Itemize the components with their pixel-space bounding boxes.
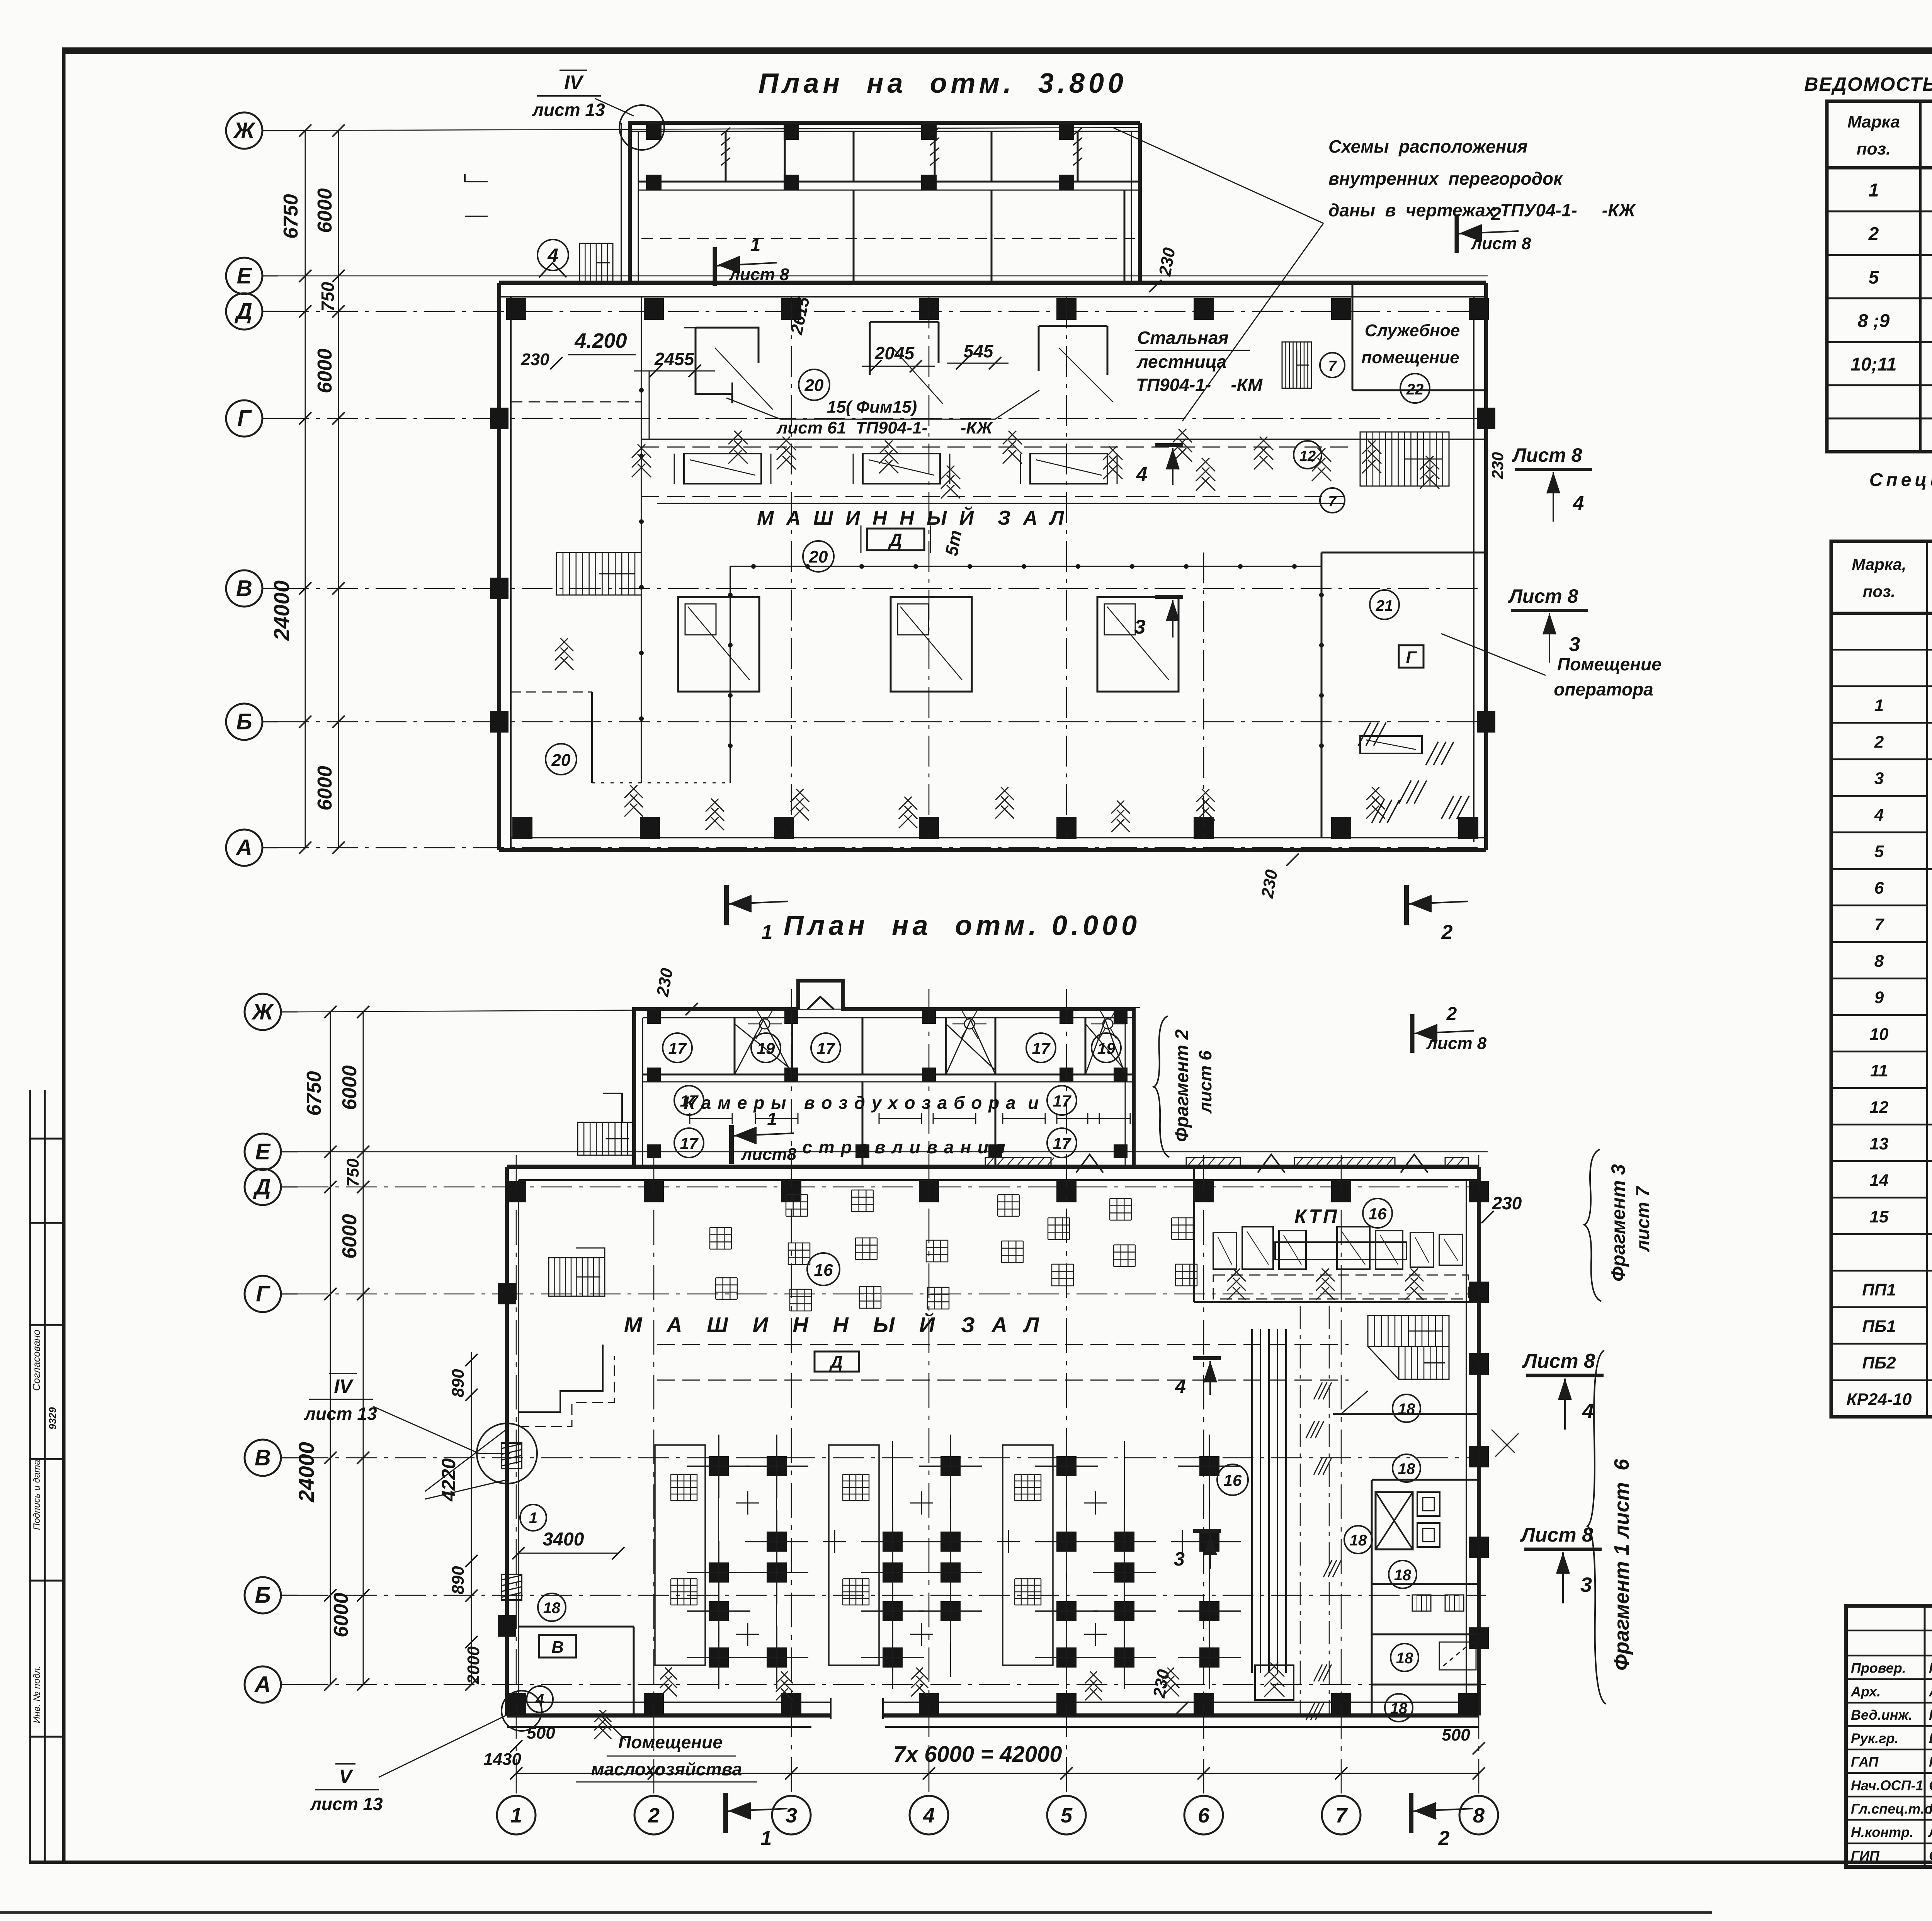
svg-text:16: 16 — [814, 1261, 833, 1280]
lower plan: corner box dashed — [1439, 1642, 1476, 1670]
lower plan: extension chimney notch — [808, 997, 834, 1009]
lower plan: stair top right — [1368, 1316, 1449, 1346]
svg-text:20: 20 — [551, 751, 571, 770]
upper plan: wall piers right wall — [1477, 408, 1495, 429]
left stamp strip inner line — [44, 1090, 46, 1862]
svg-text:17: 17 — [680, 1134, 699, 1153]
svg-text:В: В — [255, 1445, 271, 1470]
svg-text:7: 7 — [1874, 915, 1885, 934]
KTP dashed band with crosshatch — [1213, 1275, 1468, 1299]
lower plan: fan symbols in extension — [760, 1019, 770, 1029]
circles 18 right rooms — [1393, 1394, 1420, 1422]
upper plan: sluzhebnoe pomeshchenie room walls — [1352, 283, 1354, 390]
axis circle Ж (upper plan) — [226, 112, 262, 149]
svg-text:лист 8: лист 8 — [1426, 1034, 1487, 1053]
upper plan: stair flight near entrance — [580, 243, 613, 282]
svg-text:5: 5 — [1869, 267, 1879, 288]
svg-text:Нач.ОСП-1: Нач.ОСП-1 — [1851, 1778, 1923, 1793]
KTP equipment rectangles — [1213, 1232, 1236, 1269]
svg-text:4: 4 — [1573, 492, 1584, 515]
lower plan: bottom wall black columns — [506, 1693, 526, 1715]
lower plan: section arrow 4 (lower) — [1193, 1356, 1221, 1360]
svg-text:Фрагмент 2: Фрагмент 2 — [1172, 1029, 1192, 1142]
svg-text:18: 18 — [1350, 1532, 1367, 1549]
svg-text:19: 19 — [757, 1039, 775, 1057]
svg-text:Схемы расположения: Схемы расположения — [1328, 136, 1528, 156]
svg-text:8: 8 — [1473, 1804, 1485, 1827]
label G box — [1399, 645, 1423, 668]
svg-text:6000: 6000 — [314, 348, 336, 393]
lower plan: thin chain lines through foundation columns — [718, 1441, 719, 1677]
svg-text:План на отм. 0.000: План на отм. 0.000 — [784, 910, 1141, 941]
svg-text:9: 9 — [1874, 988, 1884, 1007]
upper plan: machine outline row 1 (three units) — [696, 328, 759, 363]
lower plan: upper foundations '#' marks — [710, 1227, 731, 1249]
lower plan: axis verticals (1-8) — [516, 1155, 517, 1796]
svg-text:Горская: Горская — [1929, 1660, 1932, 1676]
svg-text:4: 4 — [1582, 1399, 1594, 1423]
svg-text:15( Фим15): 15( Фим15) — [827, 398, 917, 416]
lower plan: small fixtures row — [1412, 1595, 1431, 1611]
svg-text:лестница: лестница — [1136, 352, 1226, 372]
svg-text:Гл.спец.т.о: Гл.спец.т.о — [1851, 1801, 1932, 1817]
svg-text:лист 6: лист 6 — [1195, 1051, 1215, 1114]
svg-text:7: 7 — [1328, 493, 1337, 510]
svg-text:2: 2 — [1441, 921, 1453, 943]
upper plan: main hall top wall — [499, 281, 1486, 285]
svg-text:15: 15 — [1870, 1207, 1889, 1226]
svg-text:Лист 8: Лист 8 — [1522, 1350, 1595, 1372]
svg-text:лист 13: лист 13 — [304, 1404, 377, 1424]
svg-text:13: 13 — [1870, 1134, 1889, 1153]
axis circle Г (upper plan) — [226, 400, 262, 437]
lower plan: bottom wall door opening — [831, 1700, 883, 1706]
svg-text:Помещение: Помещение — [1557, 654, 1662, 674]
svg-text:10;11: 10;11 — [1850, 354, 1896, 375]
lower plan: section arrow 3 (lower) — [1193, 1529, 1221, 1533]
svg-text:лист8: лист8 — [741, 1145, 797, 1164]
lower plan: lintel hatches above top wall (right part) — [985, 1158, 1051, 1168]
svg-text:лист 8: лист 8 — [1471, 234, 1531, 253]
lower plan: left wall black squares — [498, 1283, 516, 1304]
svg-text:лист 7: лист 7 — [1633, 1185, 1653, 1252]
svg-text:3: 3 — [1174, 1548, 1185, 1570]
lower plan: room 18/B bottom-left walls — [519, 1626, 634, 1628]
svg-text:18: 18 — [1398, 1460, 1415, 1477]
svg-text:Лист 8: Лист 8 — [1512, 444, 1582, 466]
svg-text:ВЕДОМОСТЬ ПРОЕМОВ ВОРОТ И Д: ВЕДОМОСТЬ ПРОЕМОВ ВОРОТ И ДВЕРЕЙ — [1804, 73, 1932, 95]
upper plan: extension pier hatches — [721, 127, 730, 135]
svg-text:Бескорованный: Бескорованный — [1929, 1731, 1932, 1746]
svg-text:Д: Д — [234, 299, 252, 324]
upper plan: top extension outer walls — [630, 123, 1140, 285]
svg-text:750: 750 — [318, 282, 338, 311]
svg-text:В: В — [551, 1638, 564, 1657]
svg-text:Инв. № подл.: Инв. № подл. — [32, 1666, 42, 1723]
circles 17 in extension bottom rows — [674, 1086, 704, 1115]
svg-text:ПП1: ПП1 — [1862, 1280, 1896, 1299]
upper plan: machine bases row 2 — [678, 597, 759, 692]
KTP long cabinet — [1275, 1242, 1406, 1260]
axis circle Д (lower plan) — [245, 1169, 281, 1205]
upper plan: main hall left wall — [497, 283, 501, 850]
svg-text:2000: 2000 — [464, 1646, 483, 1685]
svg-text:К а м е р ы в о з д у х о з: К а м е р ы в о з д у х о з а б о р а и — [684, 1093, 1040, 1113]
svg-text:4.200: 4.200 — [574, 329, 627, 352]
svg-text:230: 230 — [1492, 1193, 1522, 1213]
svg-text:18: 18 — [1390, 1700, 1408, 1717]
axis circle 3 (lower plan) — [772, 1796, 811, 1834]
svg-text:Д: Д — [829, 1353, 843, 1372]
svg-text:2: 2 — [1438, 1827, 1450, 1850]
svg-text:Б: Б — [236, 709, 252, 734]
svg-text:21: 21 — [1376, 597, 1393, 614]
svg-text:Подпись и дата: Подпись и дата — [32, 1460, 42, 1530]
svg-text:6750: 6750 — [303, 1071, 325, 1116]
circle 7 upper — [1320, 353, 1345, 377]
svg-text:План на отм. 3.800: План на отм. 3.800 — [759, 68, 1127, 99]
lower plan: air intake extension outer wall — [634, 1009, 798, 1166]
svg-text:230: 230 — [1488, 452, 1507, 479]
upper plan: small partition marks above hall — [465, 174, 488, 182]
axis circle Б (lower plan) — [245, 1577, 281, 1613]
svg-text:поз.: поз. — [1863, 582, 1895, 600]
svg-text:3: 3 — [1580, 1573, 1592, 1596]
svg-text:ГИП: ГИП — [1851, 1848, 1880, 1864]
svg-text:поз.: поз. — [1857, 139, 1891, 158]
upper plan: corridor band lines — [641, 439, 1486, 440]
sheet frame left border — [62, 51, 66, 1862]
svg-text:Фрагмент 3: Фрагмент 3 — [1607, 1164, 1629, 1282]
svg-text:ПБ2: ПБ2 — [1862, 1353, 1896, 1372]
svg-text:Марка,: Марка, — [1852, 555, 1906, 573]
upper plan left dimension chain line 1 — [305, 131, 306, 848]
svg-text:6000: 6000 — [330, 1593, 352, 1637]
svg-text:Служебное: Служебное — [1365, 321, 1460, 340]
main title block outer box — [1846, 1606, 1932, 1867]
table 3 data rows — [1831, 649, 1927, 651]
svg-text:11: 11 — [1870, 1061, 1888, 1080]
svg-text:ГАП: ГАП — [1851, 1754, 1879, 1770]
lower plan: dash-dot verticals right zone — [1300, 1306, 1301, 1715]
svg-text:Лист 8: Лист 8 — [1520, 1524, 1593, 1546]
svg-text:8 ;9: 8 ;9 — [1858, 311, 1890, 331]
circle 22 — [1400, 374, 1430, 403]
upper plan left dimension chain line 2 — [338, 131, 339, 848]
svg-text:Согласовано: Согласовано — [31, 1329, 42, 1391]
svg-text:17: 17 — [817, 1039, 835, 1057]
svg-text:лист 13: лист 13 — [532, 100, 605, 120]
upper plan: bottom section mark 2 — [1404, 885, 1409, 925]
svg-text:24000: 24000 — [294, 1442, 318, 1503]
upper plan: stair mid-left — [556, 552, 641, 595]
label D box (lower) — [815, 1351, 859, 1372]
svg-text:7: 7 — [1328, 358, 1337, 374]
lower plan: duct shaft bottom box — [1255, 1665, 1294, 1700]
circle 4 mark (bottom-left) — [527, 1686, 553, 1712]
lower plan: stair upper-left in hall — [549, 1258, 605, 1296]
table 1: vedomost proemov box — [1827, 101, 1932, 452]
dim chain 890/4220/890/2000 — [471, 1352, 472, 1685]
lower plan: base grids (upper row of field) — [671, 1474, 697, 1501]
table 3: specification box — [1831, 541, 1932, 1417]
lower plan: bottom section mark 2 (before axis 8) — [1409, 1793, 1413, 1833]
upper plan: axis dash-dot verticals inside hall — [791, 297, 792, 838]
axis circle 8 (lower plan) — [1459, 1796, 1498, 1834]
svg-text:24000: 24000 — [269, 580, 294, 641]
lower plan: corridor dash lines — [657, 1344, 1349, 1345]
svg-text:З А Л: З А Л — [961, 1312, 1044, 1337]
svg-text:4: 4 — [1136, 463, 1148, 486]
svg-text:17: 17 — [668, 1039, 687, 1057]
lower plan: external stair left of extension — [578, 1122, 634, 1155]
svg-text:6000: 6000 — [314, 766, 336, 811]
svg-text:16: 16 — [1369, 1205, 1387, 1223]
upper plan: extension wall columns — [646, 124, 662, 140]
svg-text:помещение: помещение — [1361, 348, 1459, 367]
circle 12 — [1294, 441, 1321, 469]
svg-text:1: 1 — [1874, 696, 1884, 715]
svg-text:ПБ1: ПБ1 — [1862, 1317, 1896, 1336]
axis circle Ж (lower plan) — [245, 994, 281, 1030]
sheet frame top border — [62, 48, 1932, 54]
label IV list 13 (upper left) — [560, 70, 587, 71]
svg-text:8: 8 — [1874, 952, 1884, 971]
svg-text:890: 890 — [449, 1566, 468, 1595]
upper plan: lower band hatch patches — [624, 785, 643, 817]
svg-text:1: 1 — [529, 1510, 537, 1527]
upper plan: entrance opening at axis 4 top-left — [539, 263, 566, 277]
title block: left rows — [1846, 1630, 1932, 1632]
upper plan: extension room divider horizontal — [638, 181, 1140, 183]
top-right section mark 2 list 8 (upper plan) — [1455, 214, 1459, 253]
circle 1 mark — [520, 1504, 546, 1531]
circle 16 (hall) — [807, 1253, 840, 1285]
svg-text:Д: Д — [888, 530, 902, 550]
lower plan: extension horizontal divider — [643, 1074, 1134, 1076]
left stamp strip dividers — [29, 1138, 64, 1140]
circle 20 (machine hall) — [803, 541, 834, 572]
upper plan: wall columns along top wall — [506, 298, 526, 320]
axis circle А (upper plan) — [226, 830, 262, 866]
svg-text:Провер.: Провер. — [1851, 1660, 1906, 1676]
title block: left columns — [1924, 1606, 1926, 1867]
svg-text:Горская: Горская — [1929, 1707, 1932, 1723]
svg-text:7: 7 — [1335, 1804, 1348, 1827]
label V / list 13 (lower plan left) — [335, 1763, 355, 1765]
circle 16 (KTP) — [1363, 1198, 1392, 1228]
svg-text:КР24-10: КР24-10 — [1847, 1390, 1912, 1409]
svg-text:лист 13: лист 13 — [310, 1794, 383, 1814]
axis circle 7 (lower plan) — [1322, 1796, 1361, 1834]
lower plan: wall break marks on top wall — [1076, 1154, 1103, 1173]
svg-text:18: 18 — [543, 1600, 561, 1617]
upper plan: wall columns along bottom wall — [512, 817, 532, 839]
svg-text:даны в чертежах ТПУ04-1-: даны в чертежах ТПУ04-1- -КЖ — [1328, 200, 1636, 220]
svg-text:2: 2 — [648, 1804, 660, 1827]
svg-text:17: 17 — [1053, 1092, 1071, 1110]
circle 21 — [1370, 590, 1399, 619]
upper plan: wall piers left wall — [490, 408, 509, 429]
svg-text:Г: Г — [237, 406, 252, 431]
upper plan: extension partitions lower — [853, 190, 855, 285]
axis circle Е (lower plan) — [245, 1134, 281, 1170]
svg-text:19: 19 — [1097, 1039, 1116, 1057]
axis circle 2 (lower plan) — [634, 1796, 673, 1834]
lower plan: footing line below bottom wall — [507, 1726, 811, 1728]
svg-text:18: 18 — [1398, 1401, 1415, 1418]
svg-text:1: 1 — [761, 1827, 772, 1850]
duct symbols row in extension — [690, 1118, 732, 1119]
lower plan left dim chains — [330, 1012, 331, 1685]
svg-text:750: 750 — [344, 1158, 362, 1187]
svg-text:3400: 3400 — [543, 1529, 584, 1550]
detail circle at axis V pier — [477, 1423, 537, 1484]
circle 18 bottom-left — [538, 1593, 566, 1621]
svg-text:1: 1 — [510, 1804, 522, 1827]
svg-text:Ж: Ж — [233, 118, 256, 143]
lower plan: diagonal hatch ticks along shaft — [1314, 1382, 1322, 1399]
upper plan: floor opening edge with dots — [730, 566, 1321, 567]
circle 16 (shaft zone) — [1217, 1464, 1248, 1495]
svg-text:3: 3 — [1569, 633, 1580, 656]
svg-text:6000: 6000 — [314, 188, 336, 233]
svg-text:IV: IV — [564, 71, 584, 93]
svg-text:ТП904-1- -КМ: ТП904-1- -КМ — [1136, 375, 1263, 395]
upper plan: bottom-right diagonal streaks — [1358, 722, 1371, 746]
svg-text:4: 4 — [923, 1804, 935, 1827]
svg-text:Осташевский: Осташевский — [1929, 1848, 1932, 1864]
svg-text:Е: Е — [237, 263, 253, 289]
detail circle at bottom-left — [502, 1691, 542, 1731]
svg-text:5: 5 — [1874, 842, 1884, 861]
table 1 rows — [1827, 211, 1932, 212]
svg-text:10: 10 — [1870, 1025, 1889, 1044]
axis circle Г (lower plan) — [245, 1276, 281, 1312]
label B box — [539, 1635, 576, 1657]
svg-text:20: 20 — [804, 376, 824, 395]
lower plan: extension vertical partitions — [734, 1018, 736, 1074]
axis circle 6 (lower plan) — [1184, 1796, 1223, 1834]
svg-text:Стальная: Стальная — [1137, 328, 1229, 348]
upper plan: corridor crosshatch patches — [632, 444, 651, 477]
svg-text:4: 4 — [547, 245, 558, 266]
svg-text:7х 6000 = 42000: 7х 6000 = 42000 — [893, 1742, 1062, 1767]
svg-text:1: 1 — [750, 235, 761, 255]
upper plan: section mark 1 list 8 (top) — [713, 247, 717, 286]
svg-text:3: 3 — [786, 1804, 797, 1827]
sheet frame bottom border — [29, 1861, 1932, 1864]
svg-text:3: 3 — [1134, 616, 1146, 638]
axis circle Б (upper plan) — [226, 704, 262, 740]
svg-text:КТП: КТП — [1294, 1205, 1339, 1227]
scan page bottom edge — [0, 1911, 1712, 1914]
steel stair symbol — [1282, 342, 1311, 388]
svg-text:22: 22 — [1406, 381, 1424, 398]
axis circle 4 (lower plan) — [910, 1796, 948, 1834]
svg-text:16: 16 — [1224, 1471, 1242, 1489]
svg-text:Б: Б — [255, 1583, 270, 1608]
svg-text:маслохозяйства: маслохозяйства — [591, 1759, 742, 1779]
lower plan: toilet fixtures — [1417, 1492, 1440, 1516]
circle mark 4 (upper plan entrance) — [537, 240, 568, 270]
svg-text:6000: 6000 — [338, 1214, 361, 1259]
svg-text:500: 500 — [527, 1724, 555, 1742]
svg-text:17: 17 — [1032, 1039, 1051, 1057]
upper plan axis lines — [278, 127, 1140, 131]
upper plan: radiator rectangles in corridor — [684, 454, 761, 484]
svg-text:Рук.гр.: Рук.гр. — [1851, 1731, 1899, 1746]
svg-text:Г: Г — [256, 1282, 270, 1307]
top-right section mark 2 list 8 (lower plan) — [1410, 1014, 1415, 1053]
svg-text:5: 5 — [1061, 1804, 1073, 1827]
svg-text:1: 1 — [762, 921, 773, 943]
lower plan: duct shaft vertical lines — [1251, 1329, 1253, 1673]
upper plan: extension partitions upper row — [725, 131, 727, 182]
lower plan: bottom section mark 1 (between axes 2-3) — [723, 1793, 728, 1833]
svg-text:17: 17 — [1053, 1134, 1071, 1153]
fan cell diagonals — [735, 1020, 764, 1074]
svg-text:лист 8: лист 8 — [729, 265, 789, 284]
svg-text:Петровский: Петровский — [1929, 1754, 1932, 1770]
svg-text:Е: Е — [255, 1139, 271, 1164]
upper plan: detail circle IV at wall corner — [619, 105, 664, 150]
svg-text:Кияшко: Кияшко — [1929, 1801, 1932, 1817]
lower plan: main outer walls — [507, 1165, 1479, 1169]
label IV / list 13 (lower plan left) — [329, 1373, 357, 1374]
lower plan: KTP room wall — [1193, 1167, 1195, 1302]
svg-text:18: 18 — [1394, 1567, 1412, 1584]
circle 20 with note 15 (fim 15) — [799, 369, 830, 400]
svg-text:Спецификация элементов запол: Спецификация элементов заполнения проемо… — [1869, 470, 1932, 490]
label D box (upper) — [867, 529, 924, 550]
svg-text:М А Ш И Н Н Ы Й: М А Ш И Н Н Ы Й — [624, 1312, 944, 1337]
upper plan: left inner partition with dots — [641, 371, 642, 783]
left stamp strip outer line — [29, 1090, 31, 1862]
upper plan: section arrow 3 (in hall) — [1155, 595, 1183, 599]
svg-text:Лист 8: Лист 8 — [1508, 585, 1578, 607]
svg-text:Ж: Ж — [251, 1000, 274, 1025]
lower plan: top wall black columns — [506, 1181, 526, 1202]
lower plan: section mark 1 list 8 (extension) — [729, 1125, 734, 1164]
svg-text:2: 2 — [1874, 733, 1884, 751]
svg-text:Помещение: Помещение — [618, 1732, 723, 1752]
upper plan: main hall right wall — [1484, 283, 1488, 850]
svg-text:V: V — [339, 1766, 353, 1787]
svg-text:500: 500 — [1442, 1725, 1470, 1744]
lower plan: foundation black squares field — [709, 1456, 729, 1476]
svg-text:IV: IV — [334, 1375, 354, 1397]
axis circle В (upper plan) — [226, 570, 262, 607]
axis circle В (lower plan) — [245, 1440, 281, 1476]
svg-text:М А Ш И Н Н Ы Й: М А Ш И Н Н Ы Й — [757, 506, 977, 529]
svg-text:2: 2 — [1868, 224, 1879, 245]
lower plan: bottom dimension line — [516, 1773, 1479, 1774]
upper plan: bottom section mark 1 — [724, 885, 729, 925]
svg-text:4: 4 — [535, 1691, 544, 1708]
svg-text:В: В — [236, 576, 252, 601]
axis circle 1 (lower plan) — [497, 1796, 536, 1834]
svg-text:6750: 6750 — [280, 194, 302, 239]
lower plan: doors right rooms — [1341, 1391, 1368, 1414]
svg-text:Фрагмент 1 лист 6: Фрагмент 1 лист 6 — [1610, 1459, 1633, 1671]
lower plan: left wall piers hatched — [502, 1443, 522, 1469]
svg-text:12: 12 — [1299, 448, 1316, 464]
svg-text:12: 12 — [1870, 1098, 1889, 1117]
lower plan horizontal axis lines — [298, 1008, 1140, 1012]
svg-text:1: 1 — [1869, 180, 1879, 201]
svg-text:Н.контр.: Н.контр. — [1851, 1824, 1913, 1840]
